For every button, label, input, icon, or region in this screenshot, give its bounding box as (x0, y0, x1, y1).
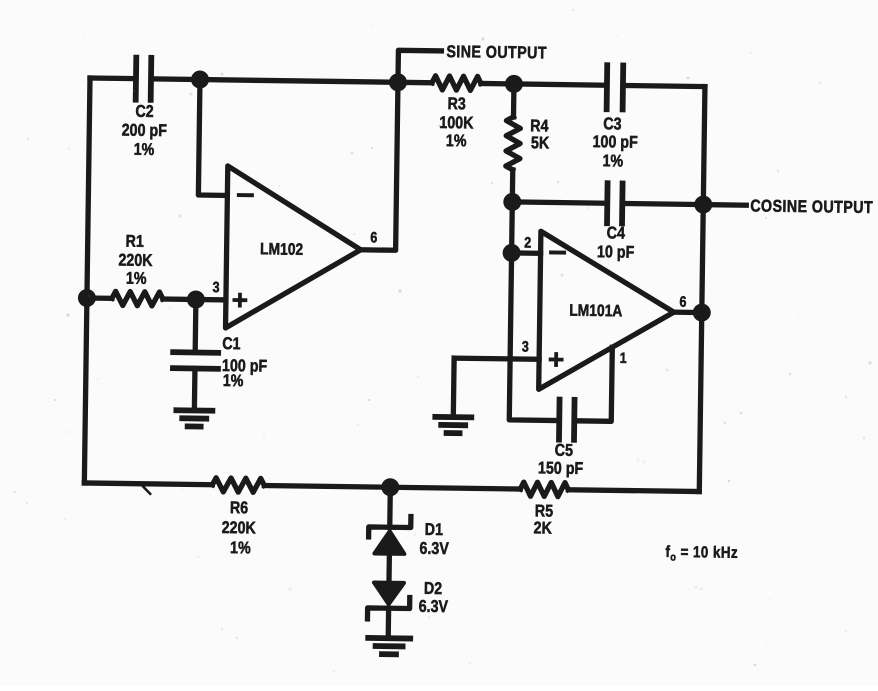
svg-text:D2: D2 (424, 580, 443, 599)
svg-text:200 pF: 200 pF (122, 121, 168, 140)
svg-text:R5: R5 (535, 502, 554, 521)
svg-text:C5: C5 (555, 442, 574, 461)
svg-text:1: 1 (620, 349, 628, 366)
svg-text:1%: 1% (134, 141, 155, 160)
svg-text:C1: C1 (222, 335, 241, 354)
svg-text:6.3V: 6.3V (419, 598, 449, 617)
svg-text:R6: R6 (230, 499, 249, 518)
svg-text:1%: 1% (602, 152, 623, 171)
svg-text:6: 6 (370, 228, 378, 245)
svg-text:D1: D1 (425, 521, 444, 540)
svg-text:100 pF: 100 pF (592, 133, 638, 152)
svg-text:1%: 1% (126, 270, 147, 289)
svg-text:220K: 220K (118, 251, 153, 270)
svg-text:C2: C2 (135, 103, 154, 122)
svg-text:R3: R3 (447, 95, 466, 114)
svg-text:1%: 1% (230, 539, 251, 558)
svg-text:3: 3 (212, 278, 220, 295)
svg-text:SINE OUTPUT: SINE OUTPUT (446, 43, 547, 63)
svg-text:2K: 2K (534, 519, 553, 538)
svg-text:C4: C4 (607, 224, 626, 243)
svg-text:100K: 100K (439, 114, 474, 133)
svg-text:10 pF: 10 pF (597, 243, 635, 262)
svg-text:3: 3 (522, 337, 530, 354)
svg-text:150 pF: 150 pF (538, 459, 584, 478)
svg-text:1%: 1% (446, 132, 467, 151)
svg-text:6.3V: 6.3V (419, 540, 449, 559)
svg-text:fo = 10 kHz: fo = 10 kHz (665, 544, 738, 565)
svg-text:C3: C3 (603, 115, 622, 134)
svg-text:6: 6 (679, 293, 687, 310)
svg-text:LM101A: LM101A (569, 302, 622, 321)
svg-text:5K: 5K (531, 134, 550, 153)
svg-text:1%: 1% (223, 372, 244, 391)
svg-text:COSINE OUTPUT: COSINE OUTPUT (750, 197, 873, 217)
svg-text:2: 2 (524, 233, 532, 250)
svg-text:R1: R1 (125, 233, 144, 252)
svg-text:R4: R4 (530, 117, 549, 136)
svg-text:220K: 220K (222, 519, 257, 538)
svg-text:LM102: LM102 (260, 240, 303, 259)
